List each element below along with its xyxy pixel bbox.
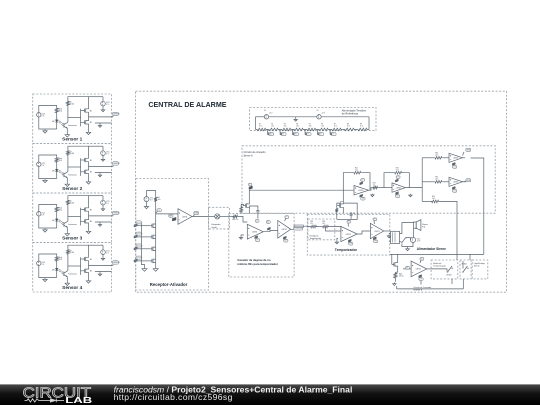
svg-text:-5 V: -5 V bbox=[361, 198, 364, 200]
svg-text:SIR B: SIR B bbox=[467, 180, 471, 182]
Receptor-Ativador dashed box bbox=[136, 179, 209, 291]
svg-text:8 Ω: 8 Ω bbox=[422, 226, 426, 228]
op-amp U7 bbox=[278, 221, 291, 239]
reference tap flag VR5 bbox=[318, 130, 324, 136]
svg-text:5 V: 5 V bbox=[397, 177, 399, 179]
svg-text:Sensor 4: Sensor 4 bbox=[62, 285, 82, 291]
op-amp U6 bbox=[247, 224, 263, 239]
ground bbox=[393, 279, 396, 286]
ground bbox=[406, 247, 410, 250]
resistor Rdiv7 bbox=[330, 124, 343, 131]
series component fuse bbox=[294, 225, 304, 230]
svg-text:-5 V: -5 V bbox=[256, 240, 259, 242]
sensor 4 block bbox=[33, 243, 112, 293]
svg-text:10 k: 10 k bbox=[355, 170, 358, 172]
sensor 2 block bbox=[33, 144, 112, 194]
wire op4 output bbox=[463, 158, 484, 255]
svg-text:1 k: 1 k bbox=[373, 184, 375, 186]
svg-text:R3: R3 bbox=[284, 124, 286, 126]
svg-text:R1: R1 bbox=[259, 124, 261, 126]
supply flag bbox=[406, 266, 410, 269]
resistor R18 bbox=[232, 215, 239, 221]
wire cap top bbox=[249, 206, 258, 209]
wire bbox=[155, 202, 157, 265]
svg-text:R9: R9 bbox=[158, 197, 160, 199]
resistor Rf2 bbox=[393, 168, 403, 174]
svg-text:R16: R16 bbox=[432, 196, 435, 198]
svg-text:V2: V2 bbox=[317, 110, 319, 112]
svg-text:http://circuitlab.com/cz596sg: http://circuitlab.com/cz596sg bbox=[114, 392, 233, 402]
label Receptor-Ativador bbox=[150, 282, 188, 287]
resistor R16 bbox=[430, 196, 440, 203]
label Circuito de comando Sirene A bbox=[244, 151, 267, 157]
wire bbox=[337, 211, 357, 220]
voltage source V4 bbox=[410, 237, 421, 242]
mosfet M8 bbox=[337, 190, 343, 213]
mosfet M4 bbox=[150, 235, 156, 239]
supply flag bbox=[285, 216, 289, 221]
label Alimentador Tensoes de Referencia bbox=[342, 108, 367, 115]
capacitor C2 bbox=[350, 212, 355, 219]
input flag SENSOR 4 bbox=[134, 256, 150, 262]
svg-text:Sensor 1: Sensor 1 bbox=[62, 137, 82, 143]
svg-text:10 k: 10 k bbox=[158, 199, 161, 201]
reference tap flag VR1 bbox=[268, 130, 274, 136]
op-amp U4 bbox=[449, 153, 463, 162]
svg-text:Lâmpada: Lâmpada bbox=[211, 224, 221, 226]
logo LAB bbox=[65, 395, 92, 405]
svg-text:Alimentador Sirene: Alimentador Sirene bbox=[417, 247, 446, 251]
resistor R14 bbox=[434, 153, 444, 160]
reference tap flag VR4 bbox=[305, 130, 311, 136]
svg-text:-5 V: -5 V bbox=[420, 279, 423, 281]
svg-text:LM741: LM741 bbox=[453, 158, 458, 160]
Temporizador dashed box bbox=[307, 214, 390, 255]
wire row2 bbox=[422, 181, 449, 183]
wire row3 bbox=[422, 201, 457, 254]
svg-text:R12: R12 bbox=[373, 182, 376, 184]
resistor R20 bbox=[322, 221, 330, 228]
supply flag bbox=[373, 237, 377, 243]
svg-text:R2: R2 bbox=[271, 124, 273, 126]
node flag bbox=[266, 221, 270, 231]
svg-text:LM741: LM741 bbox=[182, 216, 187, 218]
voltage source V3 bbox=[144, 197, 154, 202]
resistor Rdiv2 bbox=[268, 124, 281, 131]
svg-text:5 V: 5 V bbox=[406, 267, 408, 269]
sensor 3 block bbox=[33, 193, 112, 243]
label Sensor 4 bbox=[62, 285, 82, 291]
output flag SENSOR4 bbox=[112, 261, 120, 266]
svg-text:10 k: 10 k bbox=[296, 126, 299, 128]
resistor R19 bbox=[310, 221, 318, 228]
label Circuito de Comando Sirene B bbox=[413, 286, 431, 291]
resistor R15 bbox=[434, 177, 444, 184]
wire row1 bbox=[422, 157, 449, 159]
resistor Rdiv6 bbox=[318, 124, 331, 131]
svg-text:10 k: 10 k bbox=[321, 126, 324, 128]
svg-text:LM741: LM741 bbox=[453, 182, 458, 184]
svg-text:10 k: 10 k bbox=[360, 126, 363, 128]
svg-text:SENSOR 2: SENSOR 2 bbox=[113, 163, 120, 165]
op-amp U10 bbox=[411, 261, 427, 277]
svg-text:SENSOR 2: SENSOR 2 bbox=[137, 233, 143, 235]
wire bbox=[263, 231, 278, 232]
supply flag bbox=[347, 220, 351, 226]
svg-text:R5: R5 bbox=[309, 124, 311, 126]
title CENTRAL DE ALARME bbox=[148, 101, 226, 109]
wire bus vertical bbox=[421, 158, 423, 202]
svg-text:R18 10 k: R18 10 k bbox=[232, 219, 238, 221]
label Alimentador Sirene bbox=[417, 247, 446, 251]
wire to op-amp bbox=[156, 213, 178, 215]
svg-text:10 k: 10 k bbox=[435, 155, 438, 157]
svg-text:V1: V1 bbox=[264, 110, 266, 112]
svg-text:6 V: 6 V bbox=[320, 134, 322, 136]
wire op-amp output bbox=[192, 216, 209, 218]
svg-text:LAB: LAB bbox=[65, 395, 92, 405]
logo CIRCUIT bbox=[23, 385, 92, 401]
wire top rail bbox=[256, 116, 370, 118]
wire stage link bbox=[369, 188, 392, 191]
logo resistor diode glyph bbox=[25, 399, 65, 403]
relay box T1 bbox=[389, 231, 400, 243]
resistor Rdiv8 bbox=[343, 124, 356, 131]
svg-text:5 V: 5 V bbox=[348, 221, 350, 223]
svg-text:Verde: Verde bbox=[211, 226, 217, 229]
svg-text:R20: R20 bbox=[322, 221, 325, 223]
wire u9 out bbox=[384, 230, 391, 232]
svg-text:R14: R14 bbox=[435, 153, 438, 155]
op-amp U1 bbox=[178, 209, 192, 225]
label Sensor 1 bbox=[62, 137, 82, 143]
svg-text:10 V: 10 V bbox=[270, 134, 273, 136]
svg-text:R7: R7 bbox=[334, 124, 336, 126]
supply flag bbox=[373, 218, 377, 224]
svg-text:SENSOR 3: SENSOR 3 bbox=[113, 213, 120, 215]
ground bbox=[409, 194, 412, 197]
svg-text:Sirene: Sirene bbox=[474, 266, 481, 268]
reference tap flag VR2 bbox=[280, 130, 286, 136]
svg-text:REF: REF bbox=[169, 215, 172, 217]
ground bbox=[335, 238, 338, 244]
svg-text:mínimo 60s para temporizador: mínimo 60s para temporizador bbox=[237, 262, 278, 266]
footer bar bbox=[0, 384, 540, 405]
Circuito de comando Sirene A dashed box bbox=[242, 146, 495, 213]
svg-text:LM741: LM741 bbox=[282, 229, 287, 231]
footer text line2 bbox=[114, 392, 233, 402]
wire bbox=[403, 268, 411, 270]
resistor Rdiv3 bbox=[280, 124, 293, 131]
mosfet M6 bbox=[150, 259, 156, 263]
wire bottom bus bbox=[397, 279, 464, 289]
lamp LA1 bbox=[209, 214, 230, 219]
svg-text:R15: R15 bbox=[435, 177, 438, 179]
wire op5 output bbox=[463, 181, 466, 183]
svg-text:SENSOR 1: SENSOR 1 bbox=[113, 114, 120, 116]
svg-text:10 k: 10 k bbox=[435, 179, 438, 181]
label Gerador de degrau bbox=[237, 258, 278, 266]
mosfet M5 bbox=[150, 247, 156, 251]
svg-text:5 V: 5 V bbox=[421, 258, 423, 260]
resistor R9 bbox=[154, 197, 161, 203]
svg-text:SENSOR 4: SENSOR 4 bbox=[113, 262, 120, 264]
label ajuste bbox=[310, 234, 322, 239]
svg-text:Sensor 2: Sensor 2 bbox=[62, 186, 82, 192]
reference tap flag VR3 bbox=[293, 130, 299, 136]
output flag bbox=[193, 212, 199, 217]
Liga Desliga dashed box bbox=[472, 260, 488, 279]
wire feedback U3 bbox=[384, 173, 409, 188]
wire sirene A feed bbox=[390, 228, 484, 254]
Ajuste dashed box bbox=[308, 219, 335, 240]
ground bbox=[371, 194, 374, 197]
ground bbox=[142, 267, 147, 271]
svg-text:7 V: 7 V bbox=[307, 134, 309, 136]
CENTRAL DE ALARME outer dashed box bbox=[136, 91, 507, 292]
wire left drop bbox=[255, 117, 257, 130]
svg-text:5 V: 5 V bbox=[332, 134, 334, 136]
supply flag bbox=[452, 187, 456, 193]
svg-text:10 k: 10 k bbox=[432, 198, 435, 200]
svg-text:5 V: 5 V bbox=[374, 219, 376, 221]
supply flag bbox=[360, 194, 365, 200]
capacitor C1 bbox=[255, 209, 259, 223]
resistor Rdiv9 bbox=[356, 124, 369, 131]
svg-text:de Referência: de Referência bbox=[342, 111, 359, 115]
sensor 1 block bbox=[33, 94, 112, 144]
svg-text:Temporização: Temporização bbox=[433, 265, 446, 268]
resistor R21 bbox=[335, 208, 338, 220]
svg-text:10 k: 10 k bbox=[310, 223, 313, 225]
switch SW3 bbox=[462, 263, 469, 273]
footer text line1 bbox=[114, 384, 353, 394]
label Lampada Verde bbox=[211, 224, 221, 229]
wire speaker loop bbox=[400, 223, 414, 243]
svg-text:SENSOR 3: SENSOR 3 bbox=[137, 245, 143, 247]
op-amp U8 bbox=[341, 226, 357, 241]
svg-text:R11: R11 bbox=[355, 168, 358, 170]
voltage source VREF2 bbox=[317, 110, 325, 119]
svg-text:R9: R9 bbox=[360, 124, 362, 126]
svg-text:-5 V: -5 V bbox=[374, 241, 377, 243]
speaker SP1 bbox=[414, 220, 429, 231]
svg-text:LM741: LM741 bbox=[358, 190, 363, 192]
wire u8 out bbox=[357, 231, 370, 234]
input flag SENSOR 2 bbox=[134, 232, 150, 238]
svg-text:10 k: 10 k bbox=[322, 223, 325, 225]
wire bbox=[304, 225, 322, 227]
wire long signal bbox=[249, 189, 354, 191]
supply flag bbox=[395, 176, 400, 182]
switch SW2 bbox=[431, 266, 453, 277]
label Liga/Desliga bbox=[474, 263, 486, 268]
svg-text:Sensor 3: Sensor 3 bbox=[62, 236, 82, 242]
supply flag bbox=[419, 275, 423, 281]
svg-text:C2: C2 bbox=[353, 213, 355, 215]
switch box 2 dashed bbox=[460, 260, 471, 279]
svg-text:LM741: LM741 bbox=[374, 231, 379, 233]
output flag SENSOR1 bbox=[112, 112, 120, 117]
mosfet M3 bbox=[150, 224, 156, 228]
svg-text:-5 V: -5 V bbox=[349, 243, 352, 245]
supply flag bbox=[283, 236, 288, 242]
svg-text:5 V: 5 V bbox=[361, 179, 363, 181]
mosfet M9 bbox=[392, 254, 398, 272]
reference tap flag VR6 bbox=[330, 130, 336, 136]
svg-text:R19: R19 bbox=[310, 221, 313, 223]
resistor Rdiv1 bbox=[256, 124, 268, 131]
supply flag bbox=[255, 236, 260, 242]
wire bbox=[332, 230, 341, 232]
svg-text:Temporizador: Temporizador bbox=[335, 248, 358, 252]
op-amp U3 bbox=[392, 183, 405, 192]
svg-text:10 k: 10 k bbox=[309, 126, 312, 128]
supply flag bbox=[452, 163, 456, 169]
ground bbox=[294, 117, 297, 122]
input flag bbox=[169, 214, 176, 221]
svg-text:Sirene A: Sirene A bbox=[244, 154, 253, 157]
node flag trigger bbox=[249, 183, 253, 189]
op-amp U9 bbox=[370, 223, 383, 238]
wire bbox=[230, 216, 248, 222]
svg-text:Temporizador: Temporizador bbox=[310, 237, 322, 240]
Lampada Verde dashed box bbox=[209, 207, 230, 229]
output flag bbox=[463, 179, 471, 182]
svg-text:LM741: LM741 bbox=[396, 187, 401, 189]
input flag SENSOR 1 bbox=[134, 221, 150, 227]
svg-text:SENSOR 4: SENSOR 4 bbox=[137, 257, 143, 259]
svg-text:-5 V: -5 V bbox=[284, 240, 287, 242]
svg-text:5 V: 5 V bbox=[158, 210, 160, 212]
output flag SENSOR3 bbox=[112, 211, 120, 216]
svg-text:12 V: 12 V bbox=[269, 113, 272, 115]
svg-text:9 V: 9 V bbox=[282, 134, 284, 136]
svg-text:8 V: 8 V bbox=[295, 134, 297, 136]
svg-text:R13: R13 bbox=[396, 168, 399, 170]
op-amp U2 bbox=[354, 186, 369, 195]
supply flag bbox=[396, 192, 400, 198]
op-amp U5 bbox=[449, 177, 463, 186]
wire output bbox=[291, 226, 294, 229]
svg-text:R4: R4 bbox=[296, 124, 298, 126]
ground bbox=[239, 235, 244, 239]
wire bbox=[326, 227, 341, 231]
resistor Rdiv5 bbox=[305, 124, 318, 131]
supply flag bbox=[360, 179, 365, 185]
Botao de Temporizacao dashed box bbox=[431, 260, 458, 279]
resistor R17 bbox=[240, 204, 244, 213]
wire bbox=[141, 224, 144, 268]
svg-text:CENTRAL DE ALARME: CENTRAL DE ALARME bbox=[148, 101, 226, 109]
svg-text:LM741: LM741 bbox=[346, 234, 351, 236]
wire top loop bbox=[337, 203, 357, 211]
output flag SENSOR2 bbox=[112, 162, 120, 167]
label Botao bbox=[433, 262, 446, 268]
wire bbox=[147, 191, 156, 197]
label Temporizador bbox=[335, 248, 358, 252]
svg-text:10 k: 10 k bbox=[347, 126, 350, 128]
node flag 5V bbox=[156, 209, 162, 213]
svg-text:-5 V: -5 V bbox=[396, 196, 399, 198]
svg-text:Receptor-Ativador: Receptor-Ativador bbox=[150, 282, 188, 287]
wire feedback U2 bbox=[343, 173, 370, 191]
label Sensor 3 bbox=[62, 236, 82, 242]
svg-text:SIRENE B: SIRENE B bbox=[413, 289, 423, 291]
resistor Rf1 bbox=[353, 168, 363, 174]
Gerador de degrau dashed box bbox=[229, 213, 294, 277]
svg-text:12 V: 12 V bbox=[322, 113, 325, 115]
resistor R22 bbox=[394, 272, 404, 279]
label Sensor 2 bbox=[62, 186, 82, 192]
wire bbox=[402, 228, 414, 247]
wire right drop bbox=[368, 117, 370, 130]
svg-text:60s: 60s bbox=[267, 222, 269, 224]
ground bbox=[144, 202, 148, 209]
svg-text:10 k: 10 k bbox=[271, 126, 274, 128]
svg-text:-5 V: -5 V bbox=[453, 190, 456, 192]
output flag bbox=[463, 148, 471, 155]
resistor R12 bbox=[372, 182, 378, 189]
input flag SENSOR 3 bbox=[134, 244, 150, 250]
svg-text:5 V: 5 V bbox=[286, 217, 288, 219]
svg-text:C1: C1 bbox=[256, 220, 258, 222]
svg-text:10 k: 10 k bbox=[259, 126, 262, 128]
svg-text:LM741: LM741 bbox=[416, 269, 421, 271]
Alimentador Tensoes de Referencia dashed box bbox=[250, 108, 377, 131]
wire u10 out bbox=[427, 268, 431, 270]
svg-text:R8: R8 bbox=[347, 124, 349, 126]
voltage source VREF1 bbox=[264, 110, 272, 119]
wire rail drops bbox=[457, 254, 470, 268]
junction bbox=[340, 202, 343, 204]
svg-text:10 k: 10 k bbox=[334, 126, 337, 128]
ground bbox=[153, 266, 158, 272]
resistor Rdiv4 bbox=[293, 124, 306, 131]
supply flag bbox=[420, 258, 424, 263]
switch SW1 bbox=[402, 237, 407, 243]
svg-text:LM741: LM741 bbox=[252, 232, 257, 234]
supply flag bbox=[348, 239, 352, 245]
svg-text:10 k: 10 k bbox=[396, 170, 399, 172]
mosfet M7 bbox=[243, 190, 249, 213]
ground bbox=[387, 235, 390, 238]
wire to bus bbox=[405, 187, 422, 189]
svg-text:R6: R6 bbox=[321, 124, 323, 126]
svg-text:Rdd: Rdd bbox=[399, 273, 402, 275]
svg-text:-5 V: -5 V bbox=[453, 166, 456, 168]
svg-text:SENSOR 1: SENSOR 1 bbox=[137, 222, 143, 224]
svg-text:10 k: 10 k bbox=[284, 126, 287, 128]
